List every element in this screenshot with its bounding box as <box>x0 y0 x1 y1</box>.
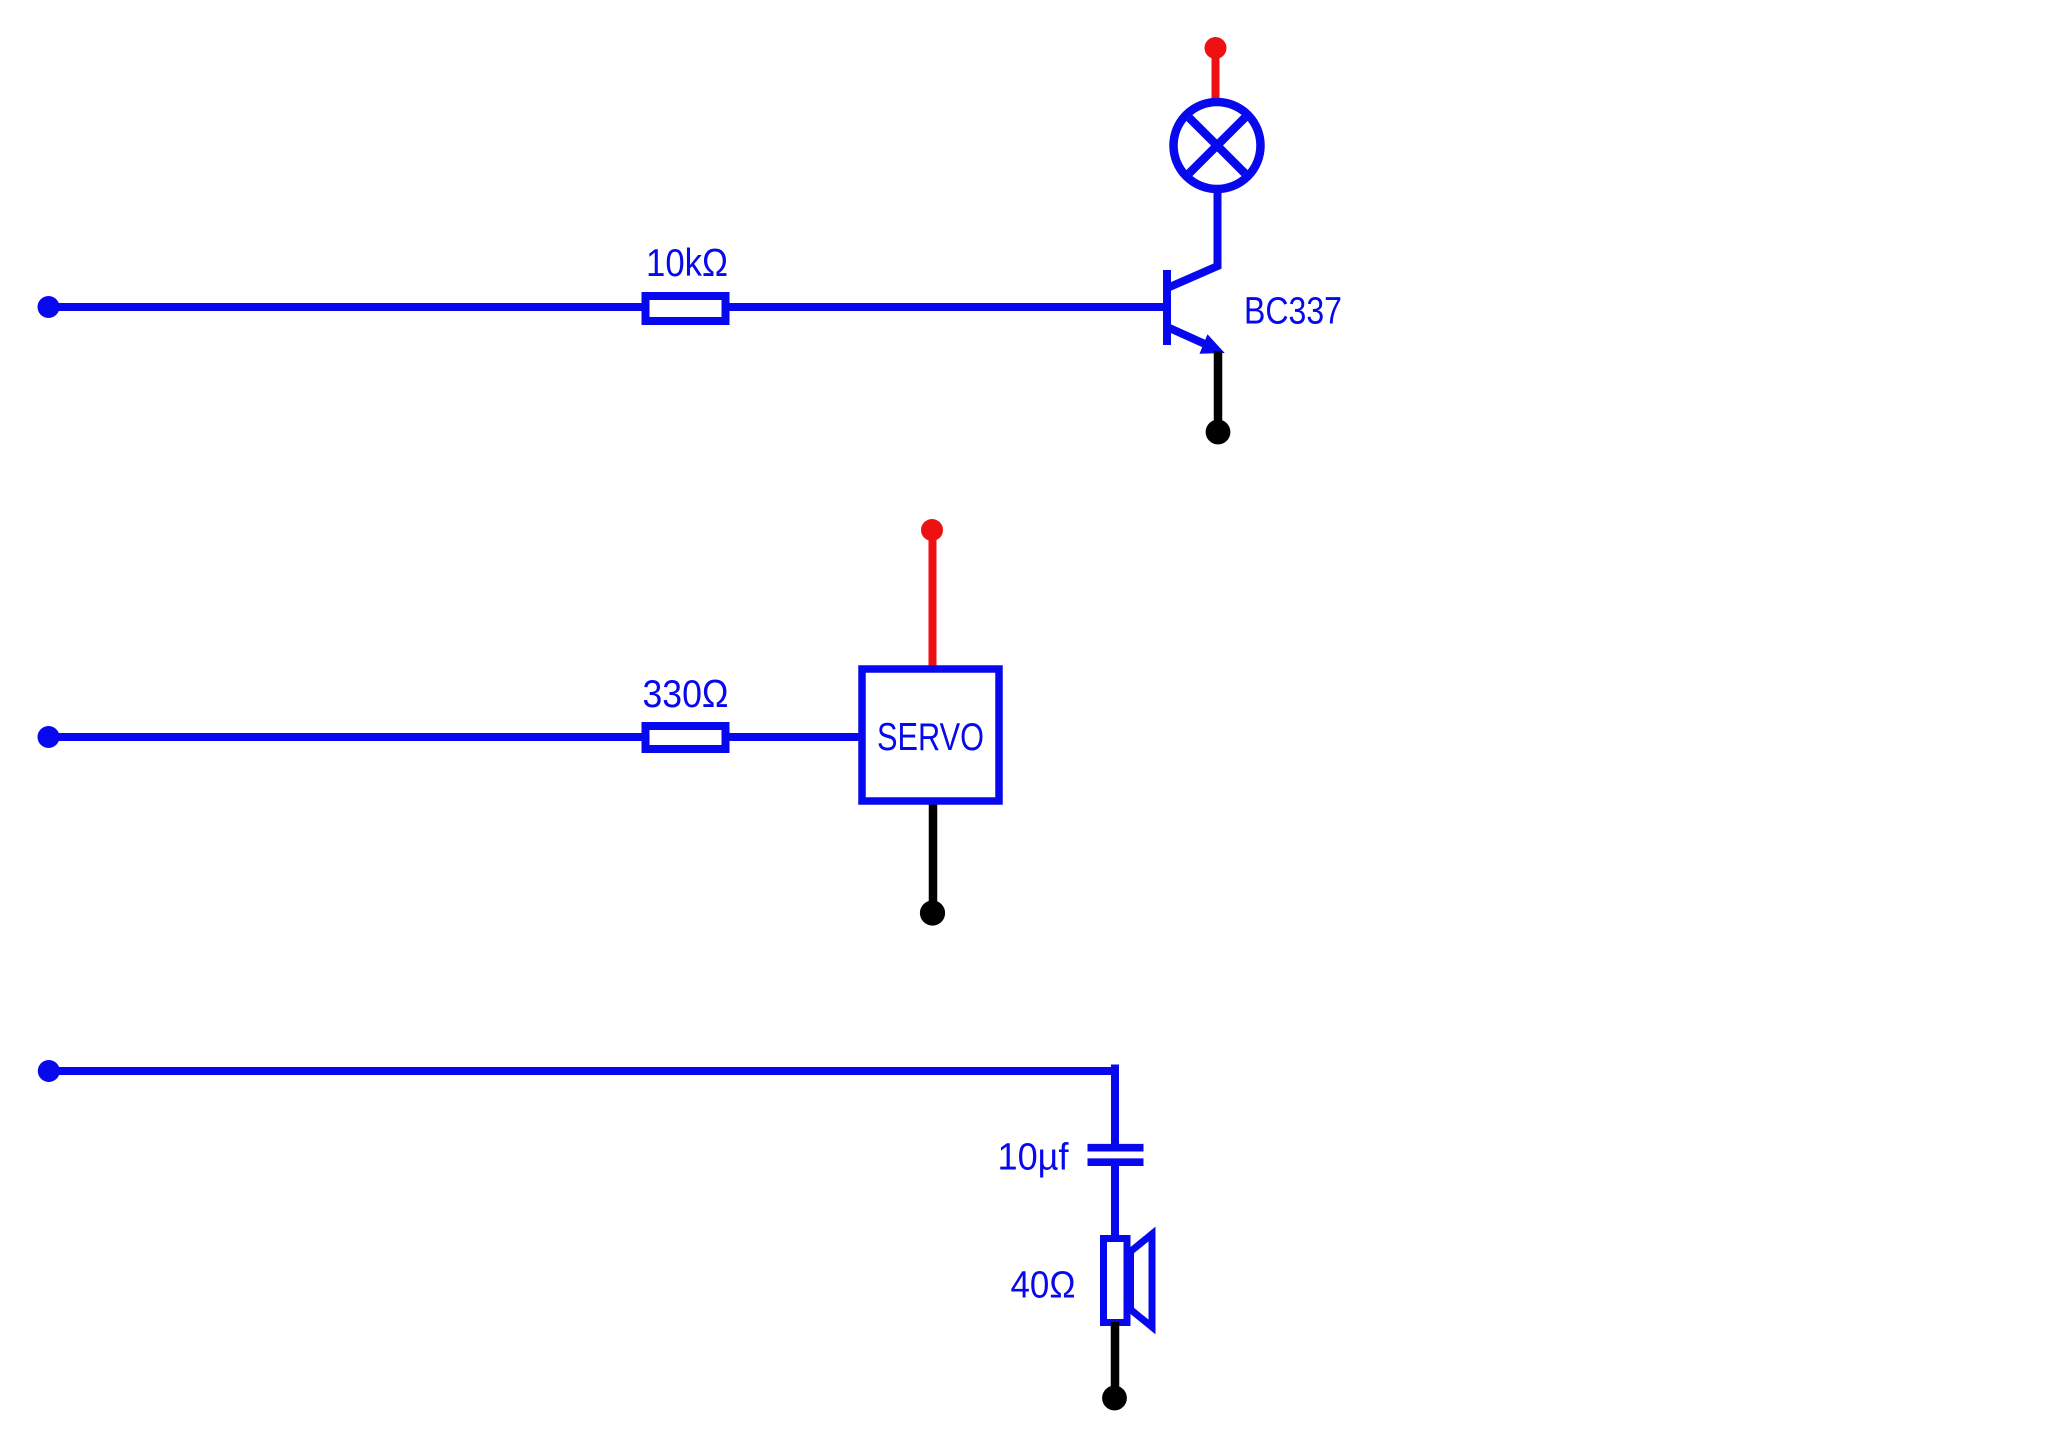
transistor Q1 emitter arrowhead <box>1200 334 1225 354</box>
speaker LS1 horn <box>1131 1234 1153 1327</box>
transistor Q1 emitter stroke <box>1165 326 1206 345</box>
transistor Q1 base bar <box>1163 270 1171 345</box>
node GND2 black dot <box>920 900 945 925</box>
node VCC1 red supply dot <box>1205 37 1227 59</box>
svg-text:40Ω: 40Ω <box>1011 1265 1076 1307</box>
wire collector vertical <box>1214 186 1222 268</box>
wire red supply lead (servo) <box>929 530 937 672</box>
node GND1 black dot <box>1206 420 1231 445</box>
wire row3 horizontal <box>48 1067 1119 1075</box>
wire red supply lead (lamp) <box>1212 48 1220 102</box>
resistor R1 10kOhm <box>646 296 726 321</box>
node IN3 (row 3 input terminal) <box>38 1060 60 1082</box>
svg-text:10kΩ: 10kΩ <box>646 242 728 285</box>
wire servo black lead <box>929 798 938 912</box>
node VCC2 red supply dot <box>921 519 943 541</box>
node IN1 (row 1 input terminal) <box>38 296 60 318</box>
wire row1 base wire <box>48 303 1165 311</box>
resistor R2 330Ohm <box>646 726 726 749</box>
svg-text:10µf: 10µf <box>998 1137 1069 1179</box>
wire speaker black lead <box>1111 1322 1120 1397</box>
wire row3 vertical drop <box>1111 1065 1119 1149</box>
wire emitter black lead <box>1214 351 1223 431</box>
speaker LS1 body <box>1104 1239 1128 1323</box>
capacitor C1 top plate <box>1088 1144 1144 1152</box>
svg-text:330Ω: 330Ω <box>643 673 729 716</box>
svg-text:SERVO: SERVO <box>877 716 984 759</box>
wire row2 signal wire <box>48 733 862 741</box>
lamp LA1 cross <box>1189 118 1245 174</box>
node GND3 black dot <box>1102 1386 1127 1411</box>
capacitor C1 bottom plate <box>1088 1158 1144 1166</box>
lamp LA1 circle <box>1174 102 1261 189</box>
wire capacitor to speaker <box>1111 1163 1119 1240</box>
servo M1 box <box>862 669 999 801</box>
node IN2 (row 2 input terminal) <box>38 726 60 748</box>
transistor Q1 collector stroke <box>1165 265 1220 289</box>
svg-text:BC337: BC337 <box>1244 291 1342 333</box>
